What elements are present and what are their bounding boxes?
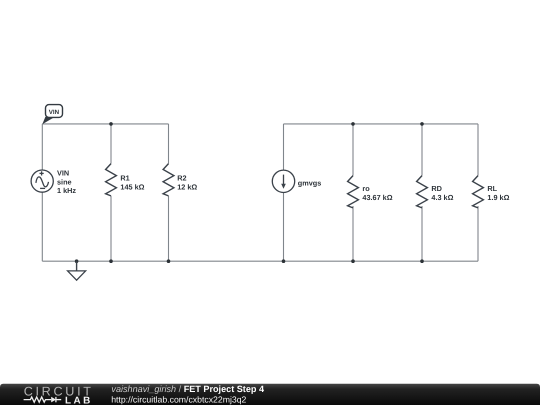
svg-text:12 kΩ: 12 kΩ	[177, 182, 197, 191]
wire ro bottom lead	[352, 206, 354, 261]
wire gmvgs bottom lead	[283, 192, 285, 261]
svg-text:RD: RD	[431, 184, 442, 193]
wire R1 bottom lead	[110, 196, 112, 261]
wire RD top lead	[421, 124, 423, 176]
junction top at R1	[109, 122, 113, 126]
logo diode triangle	[51, 397, 56, 403]
wire RL top lead	[477, 124, 479, 176]
label R2 12 kOhm	[177, 173, 197, 191]
resistor RL	[473, 176, 484, 208]
label ro 43.67 kOhm	[362, 184, 392, 202]
junction bottom at ro	[351, 259, 355, 263]
junction bottom at ground	[75, 259, 79, 263]
resistor R2	[163, 164, 174, 196]
svg-text:VIN: VIN	[49, 109, 60, 116]
wire R1 top lead	[110, 124, 112, 164]
flag VIN net label	[42, 105, 62, 125]
wire top-left horizontal (VIN node)	[42, 123, 168, 125]
junction top at ro	[351, 122, 355, 126]
wire RD bottom lead	[421, 206, 423, 261]
resistor R1	[106, 164, 117, 196]
label R1 145 kOhm	[120, 173, 144, 191]
svg-text:RL: RL	[487, 184, 497, 193]
logo squiggle wire resistor diode	[24, 397, 62, 402]
wire R2 bottom lead	[168, 196, 170, 261]
label RD 4.3 kOhm	[431, 184, 453, 202]
svg-text:1.9 kΩ: 1.9 kΩ	[487, 193, 509, 202]
svg-text:sine: sine	[57, 177, 72, 186]
voltage source V1 (VIN sine)	[31, 170, 53, 192]
svg-text:vaishnavi_girish / FET Project: vaishnavi_girish / FET Project Step 4	[111, 384, 265, 394]
svg-text:4.3 kΩ: 4.3 kΩ	[431, 193, 453, 202]
svg-text:43.67 kΩ: 43.67 kΩ	[362, 193, 392, 202]
junction bottom at RD	[420, 259, 424, 263]
svg-text:gmvgs: gmvgs	[298, 178, 322, 187]
svg-text:145 kΩ: 145 kΩ	[120, 182, 144, 191]
junction bottom at gmvgs	[282, 259, 286, 263]
svg-text:http://circuitlab.com/cxbtcx22: http://circuitlab.com/cxbtcx22mj3q2	[111, 395, 246, 405]
wire RL bottom lead	[477, 206, 479, 261]
footer bar	[0, 384, 540, 405]
ground	[68, 261, 86, 280]
wire gmvgs top lead	[283, 124, 285, 170]
wire top-right horizontal (output node)	[284, 123, 479, 125]
current source gmvgs	[272, 170, 294, 192]
svg-text:LAB: LAB	[65, 396, 93, 405]
label RL 1.9 kOhm	[487, 184, 509, 202]
wire ro top lead	[352, 124, 354, 176]
resistor ro	[348, 176, 359, 208]
svg-text:R1: R1	[120, 173, 129, 182]
wire bottom horizontal (ground net)	[42, 260, 478, 262]
svg-text:1 kHz: 1 kHz	[57, 186, 76, 195]
svg-text:VIN: VIN	[57, 169, 69, 178]
wire V1 top lead	[41, 124, 43, 170]
junction bottom at R2	[167, 259, 171, 263]
wire R2 top lead	[168, 124, 170, 164]
svg-text:R2: R2	[177, 173, 186, 182]
junction top at RD	[420, 122, 424, 126]
svg-text:ro: ro	[362, 184, 370, 193]
resistor RD	[417, 176, 428, 208]
label V1: VIN sine 1 kHz	[57, 169, 76, 195]
junction bottom at R1	[109, 259, 113, 263]
wire V1 bottom lead	[41, 192, 43, 261]
